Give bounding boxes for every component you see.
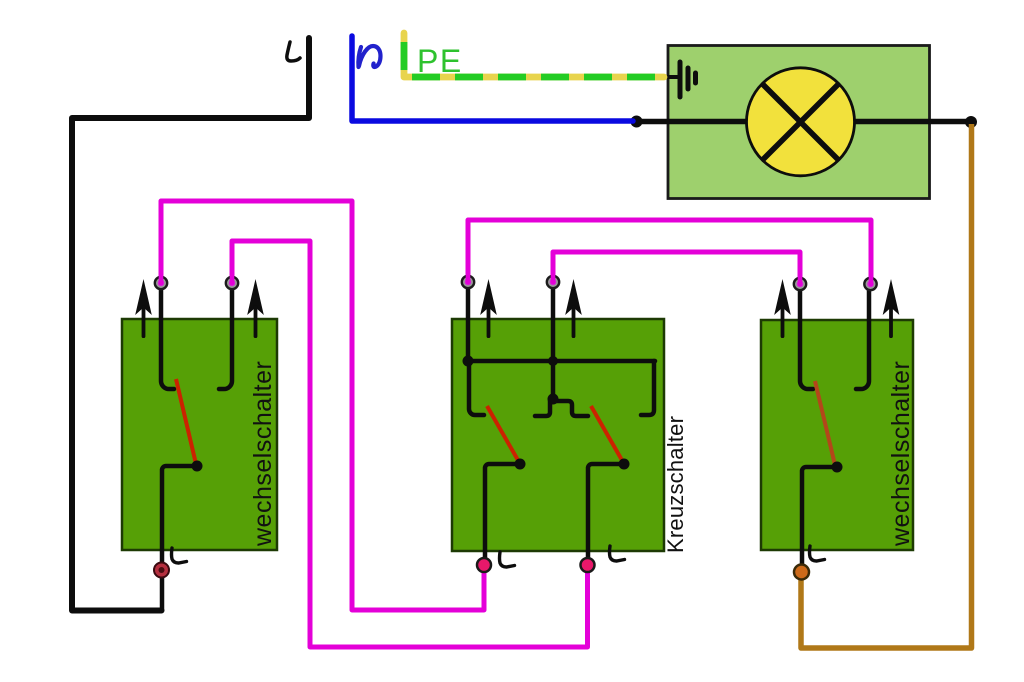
svg-text:PE: PE [417, 43, 463, 79]
svg-text:wechselschalter: wechselschalter [249, 361, 277, 547]
svg-text:Kreuzschalter: Kreuzschalter [663, 416, 688, 553]
svg-text:wechselschalter: wechselschalter [887, 361, 915, 547]
